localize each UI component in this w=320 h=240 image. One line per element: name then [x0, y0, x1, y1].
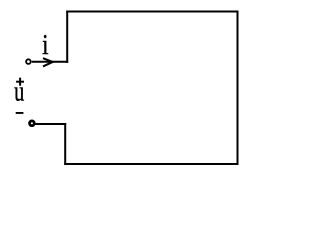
- current arrow i (arrowhead on top lead): [43, 58, 53, 66]
- svg-text:u: u: [14, 76, 25, 107]
- svg-text:i: i: [42, 29, 48, 61]
- terminal a (top open circle): [26, 59, 31, 64]
- terminal b (bottom circle): [30, 121, 35, 126]
- box N (one-port network block: top, right and bottom edges): [64, 12, 237, 165]
- label - (voltage polarity minus): [16, 112, 24, 114]
- wire: left vertical from top lead up to box top edge: [66, 11, 68, 63]
- label + (voltage polarity plus): [16, 78, 24, 86]
- wire: bottom vertical from bottom lead down to box bottom edge: [64, 123, 66, 165]
- wire: bottom lead from terminal b to box: [35, 123, 66, 125]
- wire: top lead from terminal a to box: [32, 61, 68, 63]
